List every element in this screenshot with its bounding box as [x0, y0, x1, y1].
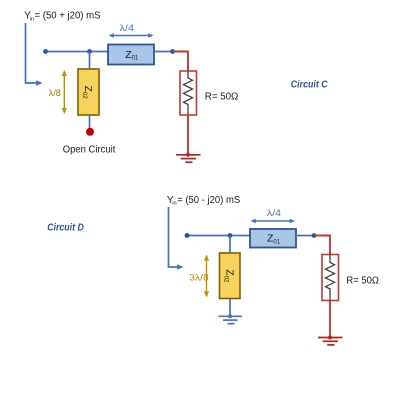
node stub junction D — [228, 233, 233, 238]
dimension arrow 3lambda/8 D — [189, 255, 209, 298]
svg-text:= (50 - j20) mS: = (50 - j20) mS — [177, 195, 240, 206]
transmission line Z01 (C) — [108, 45, 154, 65]
wire to ground D — [329, 301, 331, 337]
ground (load, C) — [176, 153, 201, 162]
dimension arrow lambda/8 C — [49, 70, 67, 114]
label Yin C — [24, 10, 101, 23]
svg-text:Circuit C: Circuit C — [291, 80, 328, 91]
dimension arrow lambda/4 D — [251, 208, 296, 223]
node stub junction C — [87, 49, 92, 54]
svg-text:λ/8: λ/8 — [49, 88, 61, 99]
wire Z01 to load C — [154, 51, 173, 53]
wire stub drop D — [229, 236, 231, 254]
ground (load, D) — [318, 336, 343, 345]
svg-text:in: in — [172, 201, 176, 207]
svg-text:= (50 + j20) mS: = (50 + j20) mS — [35, 11, 101, 22]
svg-text:01: 01 — [132, 56, 139, 62]
stub Z02 (D) — [220, 253, 241, 299]
wire stub to ground D — [229, 299, 231, 317]
svg-text:R= 50Ω: R= 50Ω — [205, 90, 239, 102]
node load junction C — [170, 49, 175, 54]
node input C — [43, 49, 48, 54]
wire feed arrow C — [26, 23, 43, 86]
svg-text:3λ/8: 3λ/8 — [189, 273, 208, 284]
wire to ground C — [187, 115, 189, 154]
wire load drop D — [315, 236, 330, 255]
svg-text:02: 02 — [223, 276, 229, 283]
svg-text:λ/4: λ/4 — [120, 23, 135, 34]
wire Z01 to load D — [296, 235, 314, 237]
label Yin D — [167, 194, 241, 207]
node input D — [185, 233, 190, 238]
open circuit terminal dot — [86, 128, 94, 136]
node load junction D — [312, 233, 317, 238]
ground (stub, D) — [219, 314, 243, 323]
wire stub to open C — [89, 115, 91, 129]
wire main horizontal D — [187, 235, 251, 237]
wire load drop C — [174, 52, 189, 72]
dimension arrow lambda/4 C — [109, 23, 154, 38]
stub Z02 (C) — [78, 69, 99, 115]
wire stub drop C — [89, 52, 91, 70]
resistor R (D) — [322, 255, 339, 301]
svg-text:λ/4: λ/4 — [267, 208, 281, 219]
svg-text:Circuit D: Circuit D — [47, 222, 84, 233]
svg-text:in: in — [30, 16, 34, 22]
svg-text:R= 50Ω: R= 50Ω — [346, 275, 379, 287]
svg-text:Open Circuit: Open Circuit — [63, 143, 116, 155]
wire feed arrow D — [169, 207, 184, 270]
svg-text:01: 01 — [273, 239, 280, 245]
resistor R (C) — [180, 71, 197, 115]
wire main horizontal C — [45, 51, 108, 53]
transmission line Z01 (D) — [250, 229, 296, 248]
svg-text:02: 02 — [81, 92, 87, 99]
